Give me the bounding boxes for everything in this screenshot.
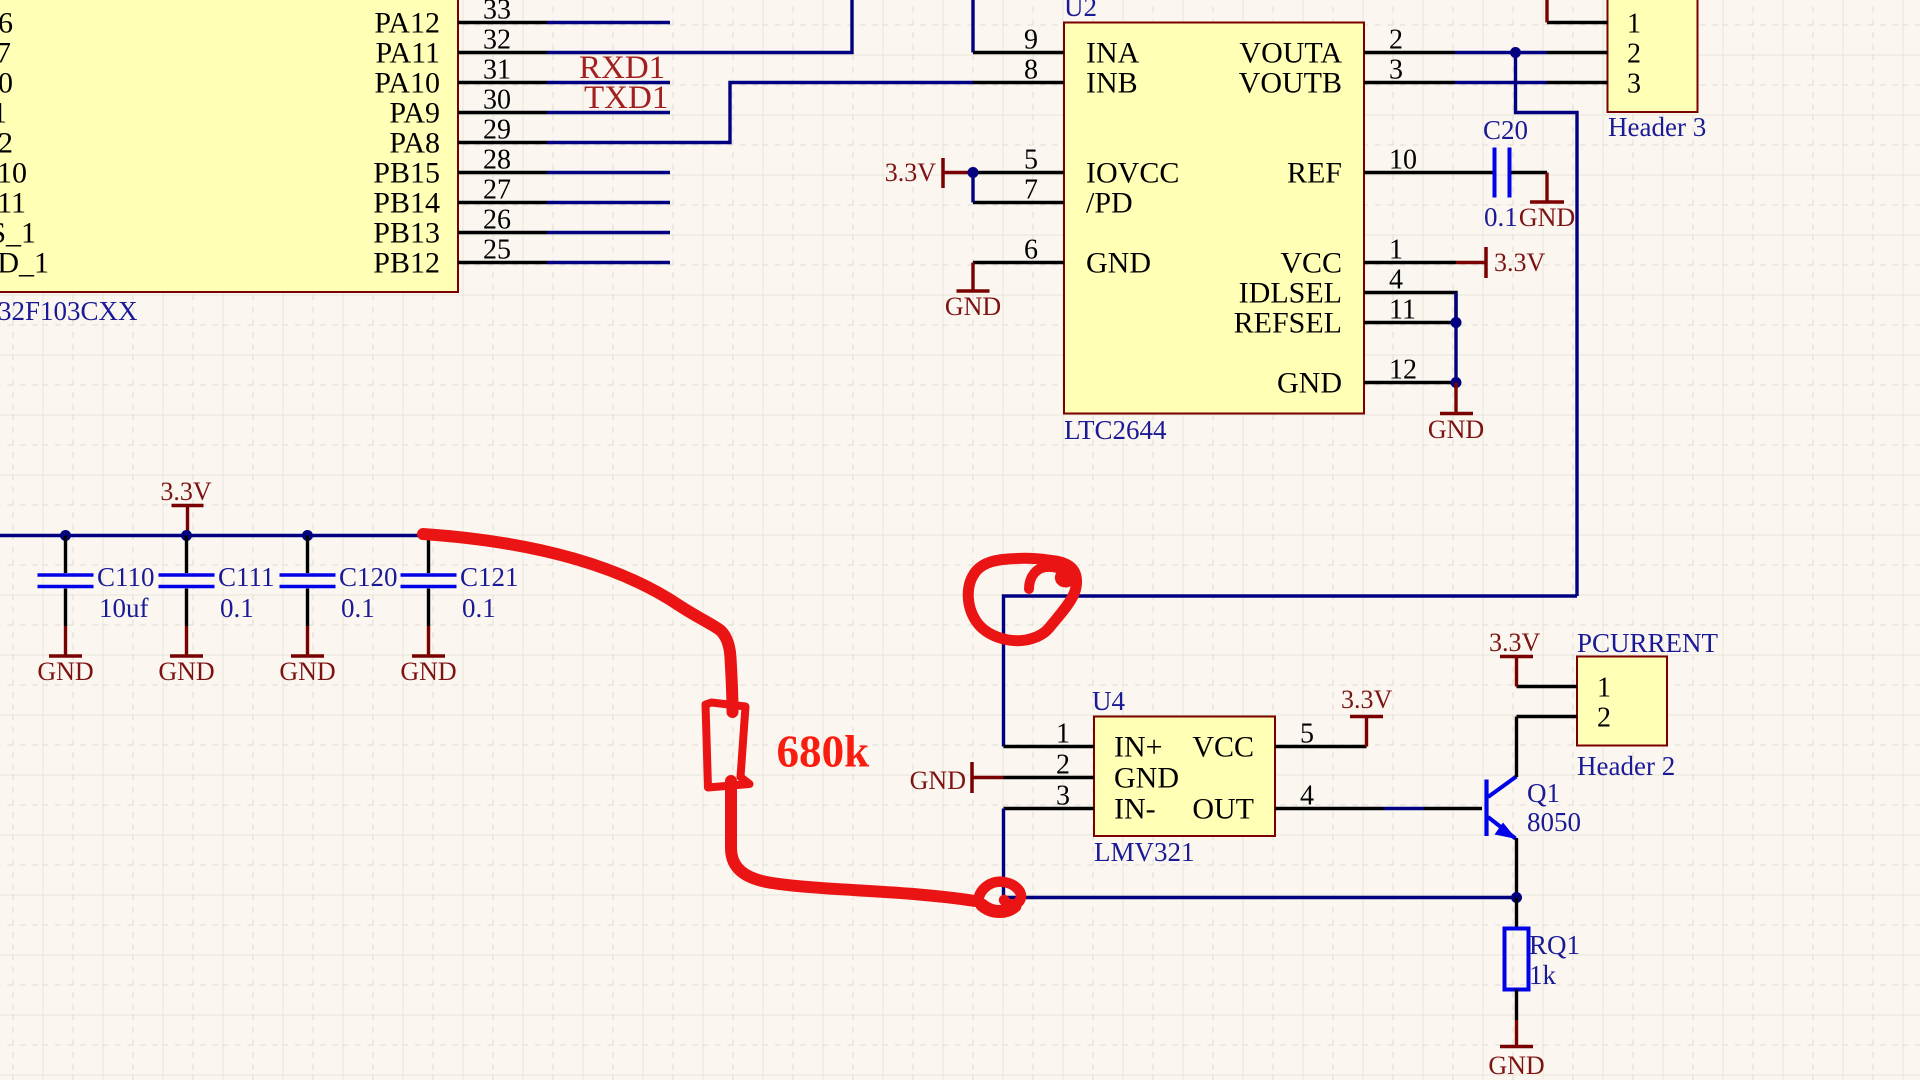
svg-text:REFSEL: REFSEL — [1234, 307, 1342, 340]
op-amp U4 LMV321 body — [1092, 686, 1275, 867]
U4 OUT stub — [1275, 807, 1384, 810]
junction emitter node — [1511, 892, 1522, 903]
svg-text:11: 11 — [0, 187, 26, 220]
U4 pin names — [1114, 731, 1254, 826]
svg-text:TXD1: TXD1 — [584, 80, 668, 116]
U2 pin 8 stub — [973, 81, 1064, 84]
svg-text:C20: C20 — [1483, 115, 1528, 145]
wire PA12 — [547, 21, 670, 24]
MCU pin stubs — [458, 23, 547, 263]
U4 pin 3 stub — [1004, 807, 1095, 810]
svg-text:0.1: 0.1 — [341, 593, 375, 623]
svg-text:VCC: VCC — [1192, 731, 1254, 764]
power 3.3V at U2 VCC — [1456, 247, 1546, 278]
red annotation hook inside circle — [1029, 567, 1070, 589]
svg-text:3: 3 — [1627, 69, 1641, 100]
svg-text:10: 10 — [0, 157, 27, 190]
U2 right pin names — [1234, 37, 1343, 400]
svg-text:IN-: IN- — [1114, 793, 1156, 826]
svg-text:PA12: PA12 — [374, 7, 440, 40]
U4 pin 2 stub — [1004, 776, 1095, 779]
wire IOVCC to /PD — [971, 173, 974, 203]
svg-text:PB14: PB14 — [373, 187, 440, 220]
svg-text:GND: GND — [1114, 762, 1179, 795]
wire REF left segment — [1364, 171, 1493, 174]
connector Header 3 body — [1608, 0, 1707, 142]
U4 VCC stub — [1275, 745, 1367, 748]
wire VCC pin1 — [1364, 261, 1456, 264]
svg-text:7: 7 — [0, 37, 11, 70]
MCU pin numbers 33-25 — [483, 0, 511, 266]
svg-text:Header 2: Header 2 — [1577, 751, 1675, 781]
wire PA10 RXD1 — [547, 81, 670, 84]
svg-text:680k: 680k — [777, 725, 870, 777]
power 3.3V at Header2 — [1489, 628, 1541, 687]
svg-text:2: 2 — [0, 127, 13, 160]
svg-text:IN+: IN+ — [1114, 731, 1163, 764]
base pin wire — [1424, 807, 1482, 810]
junction C120 — [302, 530, 313, 541]
svg-text:C121: C121 — [460, 562, 519, 592]
svg-text:OD_1: OD_1 — [0, 247, 49, 280]
wire collector up — [1515, 717, 1518, 778]
op-amp DAC U2 LTC2644 body — [1064, 0, 1364, 445]
U2 left pin names — [1086, 37, 1179, 280]
wire PB12 — [547, 261, 670, 264]
junction C111 — [181, 530, 192, 541]
wire VOUTA — [1364, 51, 1547, 54]
MCU truncated left pin names — [0, 7, 49, 280]
svg-text:32F103CXX: 32F103CXX — [0, 296, 138, 326]
svg-text:GND: GND — [910, 766, 966, 795]
wire VOUTB — [1364, 81, 1547, 84]
svg-text:LTC2644: LTC2644 — [1064, 415, 1167, 445]
Header3 pin 1 wire — [1547, 21, 1608, 24]
svg-text:GND: GND — [1519, 203, 1575, 232]
svg-text:INA: INA — [1086, 37, 1140, 70]
power 3.3V at U4 VCC — [1341, 685, 1393, 747]
svg-text:PA11: PA11 — [376, 37, 440, 70]
svg-text:GND: GND — [158, 657, 214, 686]
ground at C20 — [1519, 173, 1575, 233]
svg-text:GND: GND — [945, 292, 1001, 321]
wire PB13 — [547, 231, 670, 234]
svg-text:S_1: S_1 — [0, 217, 36, 250]
power 3.3V above C111 — [160, 477, 212, 536]
wire INA vertical — [971, 0, 974, 53]
svg-text:PB13: PB13 — [373, 217, 440, 250]
svg-text:C110: C110 — [97, 562, 155, 592]
svg-text:GND: GND — [1428, 415, 1484, 444]
svg-text:1: 1 — [0, 97, 7, 130]
svg-text:/PD: /PD — [1086, 187, 1133, 220]
svg-text:IDLSEL: IDLSEL — [1239, 277, 1342, 310]
svg-text:LMV321: LMV321 — [1094, 837, 1195, 867]
svg-text:OUT: OUT — [1192, 793, 1254, 826]
MCU U1 STM32F103CXX body — [0, 0, 458, 326]
svg-text:PB12: PB12 — [373, 247, 440, 280]
svg-text:PA9: PA9 — [389, 97, 440, 130]
svg-text:3.3V: 3.3V — [885, 158, 937, 187]
junction IOVCC — [968, 167, 979, 178]
wire PA9 TXD1 — [547, 111, 670, 114]
ground RQ1 — [1488, 1020, 1544, 1080]
svg-text:0.1: 0.1 — [462, 593, 496, 623]
feedback wire bottom — [1004, 896, 1517, 899]
U2 pin 7 stub — [973, 201, 1064, 204]
ground C111 — [158, 626, 214, 686]
U4 pin 1 stub — [1004, 745, 1095, 748]
svg-text:8050: 8050 — [1527, 807, 1581, 837]
svg-text:6: 6 — [0, 7, 13, 40]
wire PA8 to INB — [547, 83, 973, 143]
ground at U2 pin 12 — [1428, 383, 1484, 445]
red annotation small loop — [978, 882, 1021, 912]
svg-text:GND: GND — [37, 657, 93, 686]
svg-text:10uf: 10uf — [99, 593, 149, 623]
red annotation curve to feedback node — [731, 781, 975, 901]
svg-text:1: 1 — [1627, 9, 1641, 40]
junction VOUTA — [1510, 47, 1521, 58]
3.3V rail bottom left — [0, 534, 429, 537]
transistor Q1 8050 — [1487, 777, 1582, 840]
svg-text:3.3V: 3.3V — [1341, 685, 1393, 714]
svg-text:GND: GND — [279, 657, 335, 686]
ground C121 — [400, 626, 456, 686]
red annotation big circle — [968, 558, 1076, 640]
Header2 pin2 wire — [1517, 715, 1578, 718]
U2 pin numbers — [1024, 25, 1417, 386]
svg-text:REF: REF — [1287, 157, 1342, 190]
U2 pin 5 stub — [973, 171, 1064, 174]
svg-text:1k: 1k — [1529, 960, 1557, 990]
svg-text:GND: GND — [1277, 367, 1342, 400]
wire REFSEL — [1364, 321, 1456, 324]
svg-text:3.3V: 3.3V — [160, 477, 212, 506]
wire PB14 — [547, 201, 670, 204]
resistor RQ1 1k — [1505, 898, 1581, 1021]
svg-text:0: 0 — [0, 67, 13, 100]
junction GND12 — [1451, 377, 1462, 388]
wire emitter down — [1515, 838, 1518, 898]
svg-text:2: 2 — [1627, 39, 1641, 70]
svg-text:U4: U4 — [1092, 686, 1125, 716]
svg-text:1: 1 — [1597, 673, 1611, 704]
svg-text:C120: C120 — [339, 562, 398, 592]
wire C20 right — [1511, 171, 1547, 174]
svg-text:C111: C111 — [218, 562, 275, 592]
svg-text:PB15: PB15 — [373, 157, 440, 190]
svg-text:PA8: PA8 — [389, 127, 440, 160]
svg-text:0.1: 0.1 — [220, 593, 254, 623]
wire VOUTA down jog to right rail — [1516, 53, 1578, 597]
svg-text:GND: GND — [1086, 247, 1151, 280]
capacitor C120 — [280, 536, 398, 627]
wire U2 GND pin12 — [1364, 381, 1456, 384]
wire U4 IN- down — [1002, 809, 1005, 898]
svg-text:GND: GND — [1488, 1051, 1544, 1080]
Header3 pin 2 wire — [1547, 51, 1608, 54]
svg-text:PA10: PA10 — [374, 67, 440, 100]
ground at U2 pin 6 — [945, 263, 1001, 322]
Header3 pin 3 wire — [1547, 81, 1608, 84]
ground at U4 pin 2 — [910, 762, 1004, 795]
wire PB15 — [547, 171, 670, 174]
U2 pin 9 stub — [973, 51, 1064, 54]
svg-text:3.3V: 3.3V — [1489, 628, 1541, 657]
wire OUT to base — [1384, 807, 1425, 810]
ground C120 — [279, 626, 335, 686]
Header2 pin1 wire — [1517, 685, 1578, 688]
svg-text:VCC: VCC — [1280, 247, 1342, 280]
MCU pin names right column — [373, 7, 440, 280]
power 3.3V at IOVCC — [885, 158, 973, 188]
wire PA11 to top — [547, 0, 852, 53]
svg-text:VOUTA: VOUTA — [1239, 37, 1342, 70]
svg-text:0.1: 0.1 — [1484, 202, 1518, 232]
capacitor C111 — [159, 536, 275, 627]
svg-text:GND: GND — [400, 657, 456, 686]
svg-text:U2: U2 — [1064, 0, 1097, 22]
capacitor C121 — [401, 536, 519, 627]
svg-text:RQ1: RQ1 — [1529, 930, 1580, 960]
red annotation hand-drawn resistor 680k — [706, 703, 750, 788]
junction C110 — [60, 530, 71, 541]
power stub 3.3V at Header3 pin1 — [1545, 0, 1548, 23]
svg-text:Q1: Q1 — [1527, 778, 1560, 808]
svg-text:VOUTB: VOUTB — [1239, 67, 1342, 100]
wire IDLSEL — [1364, 293, 1456, 323]
svg-text:Header 3: Header 3 — [1608, 112, 1706, 142]
svg-text:IOVCC: IOVCC — [1086, 157, 1179, 190]
wire IDLSEL-REFSEL-GND vertical — [1454, 293, 1457, 383]
red annotation curve from rail — [423, 534, 733, 712]
svg-text:2: 2 — [1597, 703, 1611, 734]
U2 pin 6 stub — [973, 261, 1064, 264]
capacitor C20 — [1483, 115, 1528, 232]
capacitor C110 — [38, 536, 155, 627]
connector Header 2 body — [1577, 628, 1719, 781]
U4 pin numbers — [1056, 719, 1314, 812]
junction REFSEL — [1451, 317, 1462, 328]
svg-text:INB: INB — [1086, 67, 1138, 100]
svg-text:PCURRENT: PCURRENT — [1577, 628, 1719, 658]
wire right rail to U4 IN+ — [1004, 596, 1578, 747]
ground C110 — [37, 626, 93, 686]
svg-text:3.3V: 3.3V — [1494, 248, 1546, 277]
